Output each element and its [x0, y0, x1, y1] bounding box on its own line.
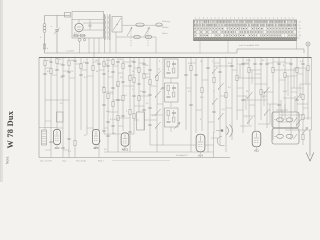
speaker arrow: [174, 123, 180, 130]
tube V1 AK2: [54, 129, 61, 150]
wire connector h8: [243, 99, 267, 101]
wire vertical net 19: [142, 58, 146, 131]
svg-text:nach Schaltbild 1234: nach Schaltbild 1234: [239, 44, 260, 47]
wire vertical net 12: [106, 58, 110, 153]
tube box enclosure: [72, 12, 104, 39]
svg-text:Wellen: Wellen: [162, 27, 169, 29]
wire vertical net 27: [206, 58, 210, 153]
svg-text:Skala: Skala: [162, 33, 168, 35]
resistor Rb below antenna: [43, 44, 49, 50]
wire vertical net 25: [194, 58, 198, 134]
wire connector h4: [150, 144, 214, 146]
loudspeaker LS: [211, 125, 233, 146]
wire vertical net 13: [111, 58, 115, 135]
wire vertical net 30: [225, 58, 227, 153]
wire vertical net 36: [259, 58, 263, 121]
coil L4: [134, 35, 141, 38]
extra value labels mid: [68, 85, 248, 153]
svg-text:Blatt 2: Blatt 2: [98, 160, 105, 163]
wire right frame vertical: [213, 132, 215, 158]
wire vertical net 3: [55, 58, 59, 132]
inner shield line: [72, 19, 104, 21]
wire vertical net 20: [148, 58, 152, 146]
wire box drop 4: [98, 38, 100, 53]
wire connector h7: [237, 77, 261, 79]
wire connector h11: [285, 129, 312, 131]
wire vertical net 29: [218, 58, 222, 146]
table column numbers: [196, 17, 294, 18]
wire grid to transformer: [83, 22, 105, 24]
coil L3: [156, 23, 162, 27]
wire transformer feeds: [281, 96, 295, 112]
wire connector h6: [214, 65, 232, 67]
filter box F1: [57, 112, 64, 122]
wire vertical net 24: [189, 58, 193, 153]
wire box drop 2: [88, 38, 90, 53]
wire vertical net 37: [265, 58, 269, 129]
wire vertical net 40: [284, 58, 286, 121]
wire coil drop: [155, 37, 157, 53]
wire vertical net 31: [230, 58, 234, 141]
wire vertical net 33: [241, 58, 245, 134]
bottom margin annotations: [40, 160, 170, 163]
wire vertical net 32: [236, 58, 238, 121]
svg-text:Gez. 14.3.38: Gez. 14.3.38: [40, 161, 52, 163]
coil block L6: [165, 59, 179, 83]
tube V0 oscillator: [75, 20, 83, 34]
coil block L8: [165, 108, 179, 132]
wire switch to coils: [122, 24, 163, 26]
svg-text:AF7: AF7: [94, 147, 99, 150]
wire vertical net 14: [116, 58, 120, 153]
wire vertical net 5: [67, 58, 71, 158]
capacitor C4 in box: [88, 20, 91, 31]
variable capacitor arrow C2: [127, 28, 132, 37]
component value labels: [47, 59, 304, 121]
svg-text:Nora Radio: Nora Radio: [76, 161, 87, 163]
svg-text:ca 220V: ca 220V: [66, 51, 75, 53]
wire vertical net 17: [132, 58, 136, 135]
wire vertical net 23: [184, 58, 188, 131]
switch contact slashes: [155, 67, 302, 129]
wire connector h5: [104, 151, 214, 153]
wire vertical net 7: [79, 58, 83, 131]
wire vertical net 42: [295, 58, 299, 129]
wire box drop 3: [93, 38, 95, 58]
wire jog connectors: [45, 62, 308, 150]
svg-text:AK2: AK2: [55, 147, 60, 150]
wire anode to transformer: [83, 29, 105, 31]
trimmer capacitor C1: [51, 16, 60, 54]
dial lamp La: [306, 42, 310, 58]
wire connector h10: [279, 114, 303, 116]
wire vertical net 6: [73, 58, 77, 158]
wire lower coil row: [116, 36, 156, 38]
tuning gang dashed line 2: [147, 28, 149, 47]
wire vertical net 15: [121, 58, 125, 132]
svg-text:Schaltbild 27: Schaltbild 27: [176, 154, 188, 157]
wire ladder segments right: [237, 62, 311, 126]
svg-text:AL4: AL4: [198, 154, 203, 157]
wire vertical net 39: [277, 58, 281, 136]
svg-text:Stellung: Stellung: [162, 20, 171, 23]
connector box K1: [65, 13, 71, 18]
wire vertical net 26: [201, 58, 203, 132]
coil L2: [136, 23, 144, 27]
coil L5: [145, 35, 152, 38]
IF transformer T1: [105, 14, 111, 53]
wire vertical net 18: [137, 58, 141, 113]
wire vertical net 4: [61, 58, 65, 158]
switch box S1: [112, 17, 122, 33]
bottom ground bus: [39, 157, 230, 159]
switch table row labels: [162, 20, 171, 35]
switch wiper arrow: [303, 128, 308, 135]
wire box drop 1: [79, 41, 81, 53]
svg-text:0,1: 0,1: [74, 32, 77, 34]
resistor cluster in box: [73, 32, 86, 36]
tube V3 ABC1: [121, 133, 129, 152]
tube V4 AL4: [196, 134, 205, 157]
svg-text:2M: 2M: [71, 60, 74, 62]
wire connector h9: [273, 69, 297, 71]
wire vertical net 44: [307, 58, 309, 121]
wire vertical net 43: [301, 58, 305, 146]
svg-text:1M: 1M: [119, 59, 122, 61]
table drop wires: [200, 41, 297, 53]
antenna coil L1: [40, 16, 46, 54]
wire vertical net 34: [248, 58, 250, 126]
wire vertical net 38: [272, 58, 274, 141]
svg-text:W 78 Dux: W 78 Dux: [6, 110, 15, 148]
oscillator coil L9: [42, 130, 47, 145]
IF can T2: [137, 112, 145, 130]
svg-text:ABC1: ABC1: [122, 149, 129, 152]
wire connector h1: [45, 99, 69, 101]
tube V5 AZ1: [252, 131, 261, 152]
wire vertical net 22: [161, 58, 165, 146]
pin circle P1: [78, 38, 81, 41]
wire vertical net 16: [128, 58, 132, 153]
svg-text:1M: 1M: [102, 87, 105, 89]
tuning gang dashed line 1: [130, 28, 132, 47]
wire vertical net 35: [253, 58, 257, 134]
svg-text:AZ1: AZ1: [254, 149, 259, 152]
chassis box left edge: [38, 58, 40, 158]
wire vertical net 9: [92, 58, 94, 132]
wire top horizontal feed: [45, 15, 71, 17]
wire connector h3: [104, 133, 134, 135]
chassis bus rail: [39, 57, 312, 59]
paper background: [0, 0, 320, 182]
mains cord: [309, 130, 311, 156]
svg-text:1M: 1M: [112, 133, 115, 135]
wire vertical net 2: [49, 58, 53, 158]
coil block L7: [165, 83, 179, 107]
svg-text:Nora: Nora: [6, 157, 10, 164]
wire vertical net 1: [43, 58, 47, 131]
junction dots on bus: [50, 57, 308, 58]
wire connector h2: [39, 127, 57, 129]
variable capacitor arrow C3: [145, 28, 150, 37]
mains plug arrowhead: [306, 153, 314, 162]
wire switch drop: [115, 32, 117, 53]
mains switch box S2b: [272, 129, 299, 145]
svg-text:1M: 1M: [60, 77, 63, 79]
wire upper rail: [45, 52, 238, 54]
tube V2 AF7: [93, 129, 100, 150]
table right side labels: [299, 22, 302, 40]
wire vertical net 21: [156, 58, 158, 153]
wire vertical net 8: [85, 58, 89, 136]
wire vertical net 28: [212, 58, 216, 134]
wire upper rail right raised: [237, 49, 304, 53]
svg-text:Gepr.: Gepr.: [62, 161, 67, 163]
mains switch box S2a: [272, 112, 299, 128]
wire vertical net 10: [97, 58, 101, 158]
switch contact table: [194, 20, 298, 41]
wire vertical net 41: [289, 58, 293, 141]
wire vertical net 11: [102, 58, 106, 135]
wire vertical net 45: [311, 58, 313, 131]
pin circle P2: [83, 39, 85, 41]
